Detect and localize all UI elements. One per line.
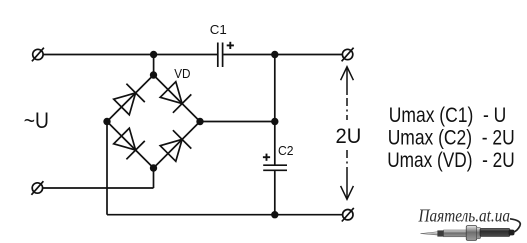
plus sign of C2 <box>263 154 270 161</box>
iron needle tip <box>421 232 439 235</box>
wire top rail left <box>43 54 217 56</box>
bridge right node <box>196 118 203 125</box>
diode VD1 top-left (anode left node, cathode top node) <box>114 84 145 115</box>
iron tip ring <box>437 230 443 236</box>
svg-text:2U: 2U <box>336 125 362 148</box>
capacitor C2 <box>263 165 287 170</box>
diode VD3 bottom-left (anode left node, cathode bottom node) <box>114 128 145 159</box>
bridge edge wire T-R <box>154 75 201 122</box>
iron cord <box>510 219 520 233</box>
terminal input top-left <box>32 48 44 62</box>
wire C1 to right column <box>223 54 274 56</box>
svg-text:~U: ~U <box>24 108 49 133</box>
terminal input bottom-left <box>31 181 43 195</box>
plus sign of C1 <box>227 42 234 49</box>
iron body <box>480 228 510 236</box>
diode VD2 top-right (anode top node, cathode right node) <box>160 82 191 113</box>
bridge edge wire L-B <box>107 122 154 169</box>
2U dimension arrow line <box>341 67 354 200</box>
diode VD4 bottom-right (anode bottom node, cathode right node) <box>160 130 191 161</box>
junction node top rail at right column <box>271 51 278 58</box>
capacitor C1 <box>218 43 223 68</box>
wire to input bottom-left terminal <box>43 187 154 189</box>
junction node right column middle <box>271 118 278 125</box>
bridge top node <box>150 71 157 78</box>
junction node on top rail at bridge <box>150 51 157 58</box>
svg-text:Паятель.at.ua: Паятель.at.ua <box>418 205 510 225</box>
bridge edge wire B-R <box>154 122 201 169</box>
svg-text:C1: C1 <box>210 22 227 37</box>
junction node bottom rail <box>271 211 278 218</box>
svg-text:Umax (C2) - 2U: Umax (C2) - 2U <box>388 126 515 149</box>
wire bridge right node to right column <box>200 121 275 123</box>
wire bridge bottom node down <box>153 168 155 188</box>
bottom rail wire <box>107 214 343 216</box>
iron collar <box>466 226 477 241</box>
iron collar step <box>477 227 481 238</box>
watermark soldering iron <box>421 219 521 241</box>
wire right column upper segment <box>274 55 276 166</box>
svg-text:VD: VD <box>174 67 190 81</box>
bridge bottom node <box>150 164 157 171</box>
svg-text:Umax (C1) - U: Umax (C1) - U <box>389 104 507 127</box>
bridge edge wire L-T <box>107 75 154 122</box>
svg-text:C2: C2 <box>278 143 294 158</box>
wire bridge left node down to bottom rail <box>106 122 108 215</box>
bridge left node <box>103 118 110 125</box>
wire top rail right to output terminal <box>275 54 343 56</box>
terminal output top-right <box>342 48 354 62</box>
wire right column lower segment <box>274 170 276 214</box>
terminal output bottom-right <box>342 208 354 222</box>
wire from top rail to bridge top <box>153 55 155 76</box>
iron end cap <box>509 230 515 236</box>
svg-text:Umax (VD) - 2U: Umax (VD) - 2U <box>387 149 515 172</box>
iron barrel <box>444 230 467 237</box>
